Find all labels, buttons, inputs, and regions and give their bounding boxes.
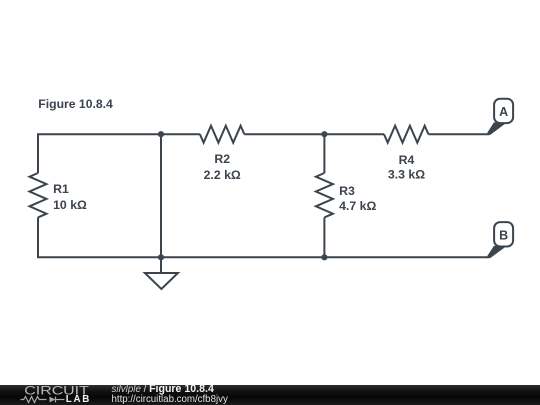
wire: R3 bottom lead	[323, 217, 325, 257]
svg-text:R1: R1	[53, 182, 69, 196]
resistor R2	[200, 126, 244, 143]
junction dot: bottom rail at ground branch	[158, 254, 164, 260]
terminal A	[487, 99, 513, 136]
wire: R4 to terminal A	[428, 133, 489, 135]
wire: R1 top lead + top rail to R2	[38, 134, 200, 173]
svg-text:Figure 10.8.4: Figure 10.8.4	[38, 97, 113, 111]
svg-text:A: A	[499, 105, 508, 119]
resistor R1	[30, 173, 47, 217]
wire: vertical between rails at ground node	[160, 134, 162, 257]
junction dot: top rail at R3 top	[321, 131, 327, 137]
terminal B	[487, 222, 513, 258]
svg-text:http://circuitlab.com/cfb8jvy: http://circuitlab.com/cfb8jvy	[112, 394, 228, 405]
wire: top rail from R2 to R4 through R3 top node	[244, 133, 384, 135]
svg-text:4.7 kΩ: 4.7 kΩ	[339, 199, 376, 213]
svg-text:10 kΩ: 10 kΩ	[53, 198, 87, 212]
junction dot: bottom rail at R3 bottom	[321, 254, 327, 260]
wire: R3 top lead	[323, 134, 325, 173]
svg-text:2.2 kΩ: 2.2 kΩ	[204, 168, 241, 182]
wire: R1 bottom lead + bottom rail to terminal B	[38, 217, 489, 257]
svg-text:R4: R4	[399, 153, 415, 167]
resistor R4	[384, 126, 428, 143]
logo: resistor-diode symbol	[21, 397, 65, 403]
svg-text:LAB: LAB	[66, 394, 91, 405]
svg-text:R2: R2	[214, 152, 230, 166]
footer bar	[0, 385, 540, 405]
svg-text:B: B	[499, 228, 508, 242]
ground	[145, 257, 178, 289]
resistor R3	[316, 173, 333, 217]
svg-text:R3: R3	[339, 184, 355, 198]
junction dot: top rail at ground branch	[158, 131, 164, 137]
svg-text:3.3 kΩ: 3.3 kΩ	[388, 168, 425, 182]
